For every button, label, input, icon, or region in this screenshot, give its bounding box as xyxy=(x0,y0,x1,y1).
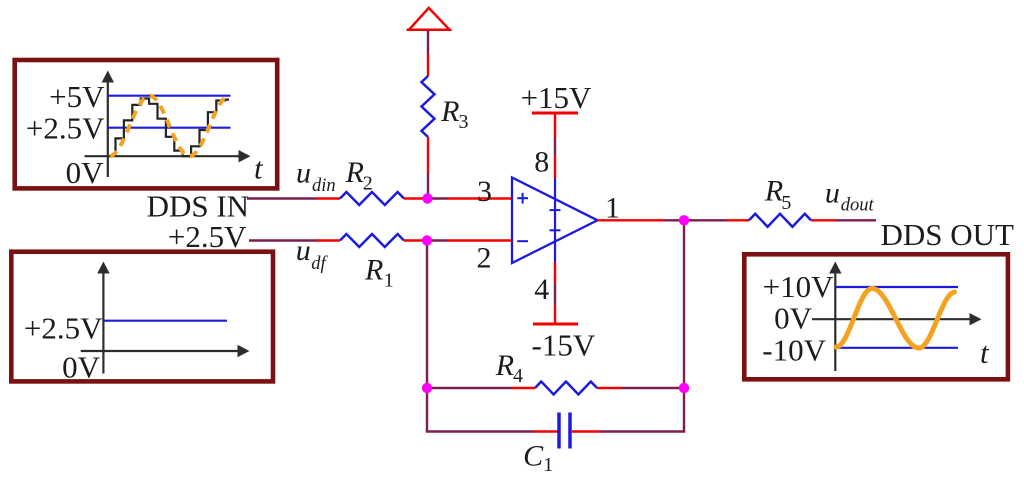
label R2 xyxy=(345,156,373,195)
box3 horizontal axis xyxy=(812,313,982,325)
-15V label xyxy=(532,328,596,363)
svg-text:R: R xyxy=(364,254,383,287)
wire power to R3 xyxy=(427,30,429,76)
svg-text:-15V: -15V xyxy=(532,328,596,363)
svg-text:t: t xyxy=(980,335,990,370)
wire node D to R4 xyxy=(427,387,535,389)
-15V rail bar xyxy=(533,323,578,326)
pin number 1 xyxy=(605,191,620,224)
svg-text:R: R xyxy=(764,175,783,208)
box3 label -10V xyxy=(762,333,826,368)
label +2.5V input xyxy=(168,219,247,254)
op-amp supply - mark xyxy=(550,229,561,231)
box2 +2.5V level line xyxy=(103,320,227,322)
+15V rail bar xyxy=(532,112,578,115)
box3 vertical axis xyxy=(829,262,841,372)
op-amp supply + mark xyxy=(550,205,561,216)
wire node A to pin 3 xyxy=(428,197,513,199)
wire R2 to node A xyxy=(404,197,428,199)
svg-text:u: u xyxy=(296,156,311,189)
resistor R1 xyxy=(340,234,404,247)
capacitor C1 xyxy=(559,413,570,449)
wire R3 to node A xyxy=(427,137,429,199)
box1 vertical axis xyxy=(102,71,114,178)
box3 +10V level line xyxy=(835,286,958,288)
svg-text:R: R xyxy=(345,156,364,189)
resistor R3 xyxy=(422,76,435,137)
label u_df xyxy=(296,234,329,274)
svg-text:R: R xyxy=(495,349,514,382)
svg-text:-10V: -10V xyxy=(762,333,826,368)
svg-text:+5V: +5V xyxy=(49,79,105,114)
svg-text:DDS OUT: DDS OUT xyxy=(881,217,1015,252)
svg-text:8: 8 xyxy=(534,146,549,179)
node A junction xyxy=(422,193,432,203)
DDS IN waveform box xyxy=(15,60,278,188)
+15V label xyxy=(521,80,592,115)
svg-text:+15V: +15V xyxy=(521,80,592,115)
box1 horizontal axis xyxy=(85,150,251,162)
svg-text:0V: 0V xyxy=(774,301,813,336)
pin number 4 xyxy=(534,273,549,306)
box1 dashed ideal sine xyxy=(110,96,228,157)
label DDS OUT xyxy=(881,217,1015,252)
svg-text:4: 4 xyxy=(513,365,523,387)
svg-text:t: t xyxy=(254,151,264,186)
node D junction xyxy=(422,383,432,393)
DC offset waveform box xyxy=(11,252,273,382)
svg-text:2: 2 xyxy=(363,173,373,195)
svg-text:+10V: +10V xyxy=(763,269,834,304)
box2 horizontal axis xyxy=(81,345,250,357)
pin number 8 xyxy=(534,146,549,179)
wire node B to pin 2 xyxy=(427,239,512,241)
wire node C to R5 xyxy=(684,219,749,221)
wire +2.5V to R1 xyxy=(249,239,340,241)
svg-text:dout: dout xyxy=(841,196,875,216)
svg-text:3: 3 xyxy=(477,175,492,208)
wire R4 to node E xyxy=(597,387,684,389)
wire node D down to C1 row xyxy=(426,388,428,432)
svg-text:0V: 0V xyxy=(66,155,105,190)
resistor R2 xyxy=(340,192,404,205)
wire node E down to C1 row xyxy=(683,388,685,432)
box2 vertical axis xyxy=(97,262,109,374)
power symbol VCC xyxy=(407,8,452,30)
box3 label t xyxy=(980,335,990,370)
node E junction xyxy=(679,383,689,393)
box2 label 0V xyxy=(62,350,101,385)
wire node B down to node D xyxy=(426,241,428,389)
box3 output sine wave xyxy=(836,289,955,349)
svg-text:1: 1 xyxy=(543,454,553,476)
op-amp U1 triangle xyxy=(512,178,598,264)
label R4 xyxy=(495,349,523,387)
svg-text:+2.5V: +2.5V xyxy=(24,311,103,346)
op-amp noninverting input + mark xyxy=(517,193,528,204)
pin number 2 xyxy=(477,242,492,275)
box2 label +2.5V xyxy=(24,311,103,346)
wire pin 4 to -15V xyxy=(554,263,556,325)
svg-text:1: 1 xyxy=(384,270,394,292)
resistor R5 xyxy=(749,214,811,227)
resistor R4 xyxy=(535,382,597,395)
label R3 xyxy=(440,95,468,133)
label R5 xyxy=(764,175,792,215)
box3 label +10V xyxy=(763,269,834,304)
box1 staircase DAC waveform xyxy=(116,99,230,157)
label u_dout xyxy=(825,177,875,216)
wire node C down to node E xyxy=(683,220,685,388)
box1 label +5V xyxy=(49,79,105,114)
svg-text:5: 5 xyxy=(781,192,791,214)
pin number 3 xyxy=(477,175,492,208)
label u_din xyxy=(296,156,336,196)
node C junction xyxy=(679,215,689,225)
svg-text:+2.5V: +2.5V xyxy=(26,111,105,146)
box3 -10V level line xyxy=(835,347,958,349)
wire +15V to pin 8 xyxy=(554,113,556,178)
box1 label +2.5V xyxy=(26,111,105,146)
node B junction xyxy=(422,235,432,245)
svg-text:R: R xyxy=(440,95,459,128)
box3 label 0V xyxy=(774,301,813,336)
wire R1 to node B xyxy=(404,239,427,241)
op-amp inverting input - mark xyxy=(517,240,528,242)
svg-text:din: din xyxy=(312,176,336,196)
box1 label t xyxy=(254,151,264,186)
svg-text:C: C xyxy=(523,440,544,473)
svg-text:4: 4 xyxy=(534,273,549,306)
label C1 xyxy=(523,440,553,477)
wire C1 to right xyxy=(572,430,685,432)
svg-text:3: 3 xyxy=(459,111,469,133)
wire R5 to DDS OUT xyxy=(811,219,876,221)
wire left to C1 xyxy=(426,430,558,432)
svg-text:2: 2 xyxy=(477,242,492,275)
wire pin 1 to node C xyxy=(598,219,685,221)
box1 +2.5V level line xyxy=(108,127,231,129)
svg-text:0V: 0V xyxy=(62,350,101,385)
box1 +5V level line xyxy=(108,95,231,97)
label DDS IN xyxy=(147,188,249,223)
wire DDS IN to R2 xyxy=(247,197,340,199)
box1 label 0V xyxy=(66,155,105,190)
svg-text:1: 1 xyxy=(605,191,620,224)
svg-text:u: u xyxy=(825,177,840,210)
label R1 xyxy=(364,254,394,292)
svg-text:+2.5V: +2.5V xyxy=(168,219,247,254)
op-amp internal supply line xyxy=(554,178,556,263)
svg-text:u: u xyxy=(296,234,311,267)
DDS OUT waveform box xyxy=(744,254,1008,379)
